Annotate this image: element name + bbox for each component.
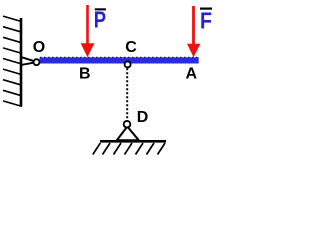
svg-text:C: C: [125, 39, 137, 56]
svg-text:D: D: [137, 109, 149, 126]
svg-text:A: A: [186, 66, 198, 83]
svg-text:O: O: [33, 39, 45, 56]
svg-text:F: F: [200, 8, 212, 34]
svg-text:B: B: [79, 66, 91, 83]
svg-text:P: P: [94, 8, 106, 33]
